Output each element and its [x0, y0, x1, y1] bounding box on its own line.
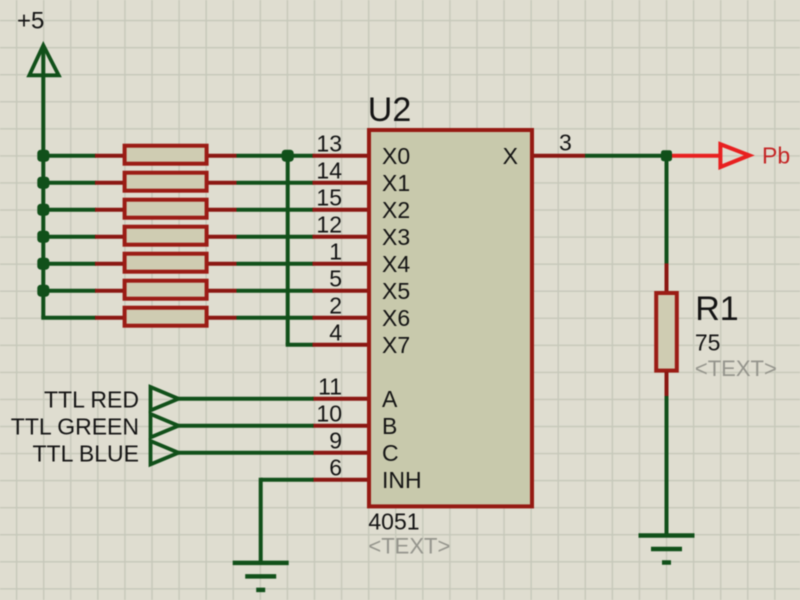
resistor body row X1 — [125, 173, 207, 191]
label TTL BLUE — [32, 441, 139, 467]
wire row X1 left — [43, 181, 96, 185]
label U2 — [368, 91, 411, 129]
label TTL GREEN — [11, 414, 139, 440]
resistor body row X5 — [125, 281, 207, 299]
svg-text:75: 75 — [695, 330, 721, 356]
pin number 6 — [329, 455, 342, 481]
junction dot row X1 — [37, 177, 49, 189]
resistor body row X3 — [125, 227, 207, 245]
resistor body row X6 — [125, 308, 207, 326]
pin name A — [382, 386, 398, 412]
pin name X2 — [382, 197, 410, 223]
resistor body row X0 — [125, 146, 207, 164]
pin number 3 — [559, 130, 572, 156]
buffer terminal TTL RED — [151, 387, 179, 410]
resistor R1 bottom pin — [665, 372, 669, 397]
svg-text:13: 13 — [316, 131, 342, 157]
wire row X6 to pin — [237, 316, 314, 320]
wire row X4 left — [43, 262, 96, 266]
svg-text:X2: X2 — [382, 197, 410, 223]
wire row X5 left — [43, 289, 96, 293]
wire row X2 left — [43, 208, 96, 212]
junction node output — [661, 150, 672, 161]
svg-text:X: X — [503, 143, 518, 169]
resistor pins row X1 — [95, 181, 237, 185]
svg-text:5: 5 — [329, 266, 342, 292]
resistor pins row X6 — [95, 316, 237, 320]
pin number 5 — [329, 266, 342, 292]
wire row A — [179, 397, 314, 401]
junction dot row X4 — [37, 258, 49, 270]
svg-text:1: 1 — [329, 239, 342, 265]
wire output X to node — [585, 154, 667, 158]
wire row C — [179, 451, 314, 455]
wire +5 trunk vertical — [41, 46, 45, 318]
label Pb — [762, 142, 790, 168]
pin name X output — [503, 143, 518, 169]
wire row X1 to pin — [237, 181, 314, 185]
junction dot row X2 — [37, 204, 49, 216]
svg-text:4051: 4051 — [368, 508, 419, 534]
power terminal +5 arrow — [29, 45, 58, 75]
wire row X5 to pin — [237, 289, 314, 293]
svg-text:Pb: Pb — [762, 142, 790, 168]
resistor pins row X4 — [95, 262, 237, 266]
pin name X1 — [382, 170, 410, 196]
svg-text:TTL BLUE: TTL BLUE — [32, 441, 139, 467]
wire node down to R1 — [665, 156, 669, 265]
svg-text:X7: X7 — [382, 332, 410, 358]
svg-text:9: 9 — [329, 428, 342, 454]
ground right bar 3 — [662, 560, 671, 565]
pin number 13 — [316, 131, 342, 157]
buffer terminal TTL BLUE — [151, 441, 179, 464]
chip pin stub X1 — [313, 181, 368, 185]
label R1 — [695, 290, 738, 328]
chip pin stub B — [313, 424, 368, 428]
wire INH horizontal — [261, 478, 314, 482]
ground left bar 1 — [233, 561, 289, 566]
label 4051 — [368, 508, 419, 534]
junction dot row X3 — [37, 231, 49, 243]
svg-text:X5: X5 — [382, 278, 410, 304]
wire vertical X0-X7 link — [286, 156, 290, 345]
svg-text:10: 10 — [316, 401, 342, 427]
svg-text:X0: X0 — [382, 143, 410, 169]
svg-text:U2: U2 — [368, 91, 411, 129]
wire red node to Pb terminal — [667, 154, 721, 158]
svg-text:<TEXT>: <TEXT> — [695, 356, 777, 381]
pin number 1 — [329, 239, 342, 265]
pin number 10 — [316, 401, 342, 427]
pin name X6 — [382, 305, 410, 331]
buffer terminal TTL GREEN — [151, 414, 179, 437]
wire row X3 left — [43, 235, 96, 239]
wire R1 to ground — [665, 396, 669, 536]
svg-text:+5: +5 — [17, 8, 44, 35]
resistor body row X4 — [125, 254, 207, 272]
chip pin stub X0 — [313, 154, 368, 158]
resistor pins row X0 — [95, 154, 237, 158]
junction dot row X0 — [37, 150, 49, 162]
pin number 4 — [329, 320, 342, 346]
chip pin stub X7 — [313, 343, 368, 347]
pin name B — [382, 413, 397, 439]
chip pin stub C — [313, 451, 368, 455]
pin name X4 — [382, 251, 410, 277]
chip pin stub X output — [532, 154, 585, 158]
svg-text:6: 6 — [329, 455, 342, 481]
chip pin stub A — [313, 397, 368, 401]
svg-text:4: 4 — [329, 320, 342, 346]
chip U2 body 4051 — [369, 130, 532, 506]
wire row X4 to pin — [237, 262, 314, 266]
wire row X7 to pin — [286, 343, 314, 347]
ground right bar 1 — [639, 533, 695, 538]
pin name X0 — [382, 143, 410, 169]
svg-text:15: 15 — [316, 185, 342, 211]
svg-text:<TEXT>: <TEXT> — [368, 534, 450, 559]
wire row X0 left — [43, 154, 96, 158]
pin name INH — [382, 467, 422, 493]
svg-text:C: C — [382, 440, 399, 466]
pin name X5 — [382, 278, 410, 304]
chip pin stub X6 — [313, 316, 368, 320]
label 75 — [695, 330, 721, 356]
chip pin stub X4 — [313, 262, 368, 266]
svg-text:3: 3 — [559, 130, 572, 156]
svg-text:TTL RED: TTL RED — [44, 387, 139, 413]
pin name X7 — [382, 332, 410, 358]
wire row X2 to pin — [237, 208, 314, 212]
label R1 TEXT placeholder — [695, 356, 777, 381]
svg-text:A: A — [382, 386, 398, 412]
resistor body row X2 — [125, 200, 207, 218]
pin number 11 — [318, 374, 342, 400]
ground left bar 2 — [245, 574, 276, 579]
resistor pins row X3 — [95, 235, 237, 239]
svg-text:X3: X3 — [382, 224, 410, 250]
svg-text:R1: R1 — [695, 290, 738, 328]
chip pin stub X3 — [313, 235, 368, 239]
label chip TEXT placeholder — [368, 534, 450, 559]
svg-text:INH: INH — [382, 467, 422, 493]
power terminal +5 label — [17, 8, 44, 35]
label TTL RED — [44, 387, 139, 413]
wire INH vertical to ground — [259, 478, 263, 563]
svg-text:14: 14 — [316, 158, 342, 184]
svg-text:B: B — [382, 413, 397, 439]
svg-text:X4: X4 — [382, 251, 410, 277]
pin name X3 — [382, 224, 410, 250]
pin number 12 — [316, 212, 342, 238]
ground left bar 3 — [256, 588, 265, 593]
svg-text:2: 2 — [329, 293, 342, 319]
wire X6 row elbow from trunk — [41, 316, 96, 320]
svg-text:X6: X6 — [382, 305, 410, 331]
svg-text:TTL GREEN: TTL GREEN — [11, 414, 139, 440]
svg-text:11: 11 — [318, 374, 342, 400]
wire row B — [179, 424, 314, 428]
chip pin stub X2 — [313, 208, 368, 212]
wire row X0 to pin — [237, 154, 314, 158]
resistor pins row X5 — [95, 289, 237, 293]
pin name C — [382, 440, 399, 466]
terminal Pb arrow — [720, 144, 749, 167]
pin number 9 — [329, 428, 342, 454]
svg-text:12: 12 — [316, 212, 342, 238]
svg-text:X1: X1 — [382, 170, 410, 196]
ground right bar 2 — [651, 547, 682, 552]
pin number 15 — [316, 185, 342, 211]
resistor pins row X2 — [95, 208, 237, 212]
resistor R1 top pin — [665, 263, 669, 292]
chip pin stub INH — [313, 478, 368, 482]
pin number 2 — [329, 293, 342, 319]
resistor R1 body — [656, 293, 677, 371]
junction dot row X5 — [37, 285, 49, 297]
wire row X3 to pin — [237, 235, 314, 239]
chip pin stub X5 — [313, 289, 368, 293]
pin number 14 — [316, 158, 342, 184]
junction dot X0-X7 link — [282, 150, 294, 162]
